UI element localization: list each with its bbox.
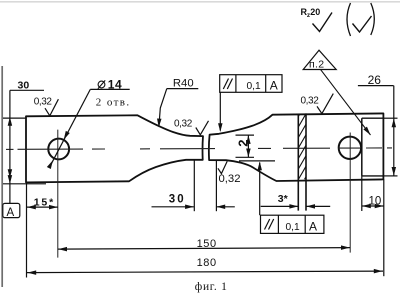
page border left [1,66,3,287]
dim 30 left height: line [9,90,11,203]
svg-text:30: 30 [169,193,186,205]
specimen outline right half [209,113,384,181]
left edge ext [26,182,28,277]
dia 14 shelf [90,88,129,90]
roughness 0,32 top-left check [45,99,58,116]
svg-text:0,32: 0,32 [174,118,193,129]
centerline right hole vertical [349,133,351,253]
svg-text:20: 20 [310,7,320,17]
dim 3*: right line [306,205,330,207]
svg-text:0,1: 0,1 [286,222,300,233]
parenthesis check left [347,3,351,36]
svg-text:0,32: 0,32 [301,96,320,107]
page border top [0,1,400,3]
dim 30 bottom: right line [216,206,234,208]
svg-text:26: 26 [368,73,382,87]
dia 14 leader [51,89,91,165]
hole left [48,139,69,160]
dim 2: ext top [236,134,255,136]
dim 30 bottom: ext left [193,161,195,212]
tolerance frame top [220,75,282,93]
dim 180: line [27,271,383,273]
p.2 triangle [303,50,336,69]
ext line right top [384,117,398,119]
svg-text:3*: 3* [278,193,289,205]
svg-text:2: 2 [235,140,250,147]
roughness 0,32 right check [317,94,333,114]
datum A box [3,203,20,217]
roughness 0,32 mid check [196,121,209,135]
parenthesis check mark [353,16,372,32]
specimen outline left half [26,115,203,182]
tolerance frame bottom [261,215,324,233]
svg-text:0,32: 0,32 [219,173,241,185]
right end piece ext below [361,176,363,211]
dim 30 left height: shelf [10,89,44,91]
dim 2: line [247,135,249,157]
svg-text:180: 180 [197,257,217,269]
roughness 0,32 bottom check [218,161,227,173]
dim 30 bottom: ext right [215,161,217,212]
centerline horizontal [6,148,392,150]
svg-text:R40: R40 [173,78,194,90]
svg-text:A: A [309,219,317,233]
dim 26: shelf [358,85,394,87]
R40 leader [159,89,167,127]
dim 2: ext bottom [236,156,255,158]
svg-text:0,1: 0,1 [247,81,261,92]
dia 14 label [98,77,122,91]
svg-text:A: A [270,79,278,93]
p.2 leader [321,70,371,135]
weld seam band left edge [297,114,299,211]
tolerance frame top leader [219,92,221,130]
svg-text:0,32: 0,32 [34,96,53,107]
hole right [339,137,361,159]
dim 3*: left line [261,205,299,207]
dim 15*: line [27,206,58,208]
svg-text:30: 30 [18,80,30,92]
svg-text:A: A [7,207,15,219]
neck bottom ext line [239,160,275,162]
R40 shelf [167,88,199,90]
dim 30 bottom: left line [152,206,194,208]
weld seam hatching [294,96,310,197]
dim 150: line [58,248,350,250]
svg-text:2 отв.: 2 отв. [96,96,131,108]
weld seam band right edge [305,113,307,210]
tolerance frame bottom leader [259,163,261,216]
centerline left hole vertical [57,130,59,258]
ext line bottom left [3,183,46,185]
svg-text:п.2: п.2 [309,59,324,71]
Rz20 check [313,13,333,32]
dim 10: line [362,205,384,207]
parenthesis check right [371,3,375,35]
right end piece box [361,118,363,176]
ext line right bottom [384,175,398,177]
dim 26: line [393,86,395,176]
ext line top left [3,117,26,119]
right edge ext [383,179,385,276]
svg-text:фиг. 1: фиг. 1 [195,281,228,293]
